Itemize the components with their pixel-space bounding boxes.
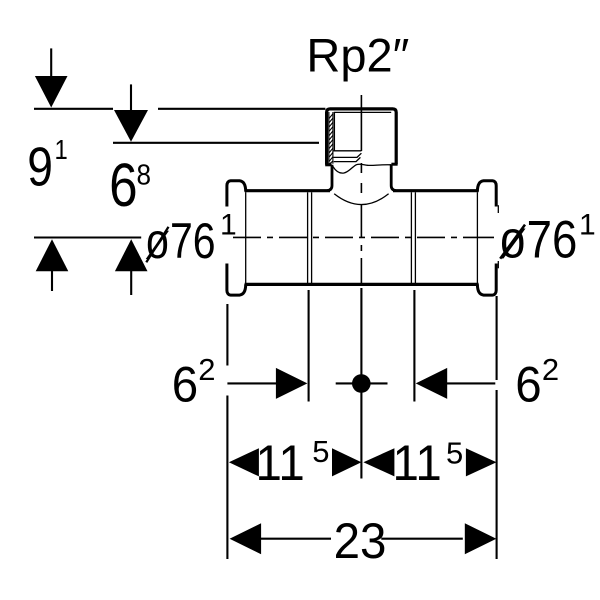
dimension 11-5 left outer arrowhead: [229, 448, 259, 476]
extension line right end (x=496.6): [496, 296, 498, 559]
dimension 11-5 right inner arrowhead: [363, 448, 394, 476]
inner line under box top: [334, 111, 391, 113]
dimension 23 right arrowhead: [465, 523, 497, 554]
svg-text:6: 6: [109, 151, 137, 219]
dimension 11-5 left inner arrowhead: [332, 448, 361, 476]
svg-text:ø76: ø76: [499, 210, 578, 269]
dimension 11-5 right outer arrowhead: [466, 448, 497, 476]
dimension 23 left leader line: [260, 538, 331, 540]
dimension 6-2 left leader line: [227, 382, 277, 384]
left socket depth double line: [308, 192, 312, 283]
dimension 6-2 left arrowhead: [276, 368, 308, 399]
svg-text:9: 9: [27, 136, 53, 198]
thread runout line 1 with hook: [334, 153, 362, 157]
thread hatch band boundary lines: [329, 112, 333, 164]
branch neck left edge: [327, 165, 332, 191]
branch hex box outline (bold): [327, 109, 397, 165]
center dot: [352, 374, 371, 393]
dimension 9-1 arrow stem: [50, 48, 52, 77]
thread bore bottom line: [334, 150, 362, 152]
svg-text:1: 1: [220, 209, 237, 242]
extension line left socket depth (x=308.6): [308, 290, 310, 402]
dimension 9-1 lower arrowhead (pointing up): [36, 239, 69, 271]
dimension 6-8 lower arrow stem: [130, 271, 132, 295]
extension line right socket depth (x=414.4): [413, 290, 415, 402]
slash extension of left ø: [146, 227, 168, 262]
thread minor diameter line: [333, 112, 335, 150]
right lip inner mark lower: [497, 261, 499, 268]
extension line from 9-1 to branch top: [158, 108, 325, 110]
dimension 6-8 lower arrowhead (pointing up): [115, 239, 148, 271]
svg-text:2: 2: [198, 352, 215, 387]
extension line left end (x=227.4): [226, 304, 228, 559]
branch box bottom-right stub: [391, 163, 397, 166]
tick/extension line for 6-8: [113, 142, 319, 144]
dimension 23 right leader line: [381, 538, 463, 540]
thread hatch marks: [329, 114, 333, 165]
svg-text:5: 5: [446, 436, 463, 471]
svg-text:23: 23: [334, 514, 387, 569]
left press lip top hook: [227, 181, 246, 207]
branch neck right edge: [391, 164, 396, 190]
svg-text:11: 11: [256, 436, 305, 491]
right lip inner mark upper: [497, 205, 499, 213]
dimension 6-2 right leader line: [446, 382, 495, 384]
thread runout line 2 with hook: [334, 157, 361, 161]
svg-text:ø76: ø76: [145, 213, 216, 269]
body top edge right of branch: [393, 189, 479, 192]
svg-text:2: 2: [542, 352, 559, 387]
horizontal centerline (dash-dot): [233, 236, 494, 238]
tick line for 9-1: [34, 108, 113, 110]
svg-text:11: 11: [393, 436, 442, 491]
dimension 6-8 arrow stem: [130, 84, 132, 111]
dimension 6-2 right arrowhead: [416, 368, 448, 399]
svg-text:6: 6: [515, 357, 541, 412]
right socket depth double line: [411, 192, 415, 283]
left press lip bottom hook: [227, 264, 246, 296]
svg-text:6: 6: [172, 357, 198, 412]
right press lip top hook: [477, 181, 496, 207]
tick line at centerline level for 9-1 and 6-8: [34, 236, 141, 238]
dimension 23 left arrowhead: [230, 523, 262, 554]
body top edge left of branch: [245, 189, 330, 192]
dimension 9-1 lower arrow stem: [51, 271, 53, 291]
weld fillet arc under branch: [334, 194, 388, 205]
svg-text:5: 5: [312, 434, 329, 469]
slash extension of right ø: [500, 225, 525, 259]
right lip boundary thin line: [476, 192, 478, 283]
left lip boundary thin line: [245, 192, 247, 283]
dimension 6-8 arrowhead: [114, 110, 148, 142]
svg-text:1: 1: [55, 133, 68, 165]
svg-text:8: 8: [137, 158, 152, 191]
right press lip bottom hook: [477, 264, 496, 296]
center stub line: [336, 382, 388, 384]
svg-text:1: 1: [579, 208, 596, 241]
vertical centerline of branch (dash-dot): [360, 95, 362, 285]
center extension line (x=361.4): [360, 288, 362, 479]
wavy break line across neck: [333, 164, 391, 173]
svg-text:Rp2″: Rp2″: [306, 29, 409, 82]
branch box bottom-left stub: [325, 163, 331, 166]
body bottom edge: [245, 283, 479, 286]
dimension 9-1 arrowhead: [35, 76, 68, 108]
